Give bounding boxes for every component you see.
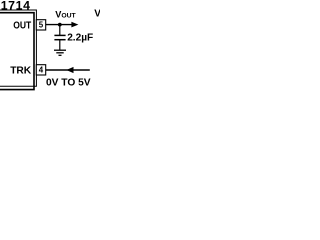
- svg-text:2.2µF: 2.2µF: [67, 32, 93, 43]
- arrow VOUT output (pointing right): [71, 22, 78, 28]
- pin 4 box: [36, 65, 45, 75]
- capacitor C1 top lead: [59, 25, 61, 35]
- svg-text:V: V: [94, 8, 100, 19]
- capacitor C1 plates: [54, 34, 65, 36]
- node VOUT junction dot: [58, 23, 62, 27]
- svg-text:TRK: TRK: [10, 66, 31, 77]
- svg-text:0V TO 5V: 0V TO 5V: [46, 78, 91, 89]
- ground: [54, 50, 66, 55]
- wire OUT (pin 5 to VOUT node): [46, 24, 72, 26]
- svg-text:5: 5: [39, 21, 44, 30]
- svg-text:OUT: OUT: [13, 21, 32, 32]
- IC U1 back box (dual-device outline, offset up-right): [0, 10, 36, 86]
- svg-text:4: 4: [39, 66, 44, 75]
- arrow TRK input (pointing left): [66, 67, 73, 73]
- IC U1 front box: [0, 13, 34, 90]
- pin 5 box: [36, 20, 45, 30]
- capacitor C1 bottom lead: [59, 40, 61, 50]
- svg-text:1714: 1714: [1, 0, 31, 13]
- wire TRK input: [46, 69, 90, 71]
